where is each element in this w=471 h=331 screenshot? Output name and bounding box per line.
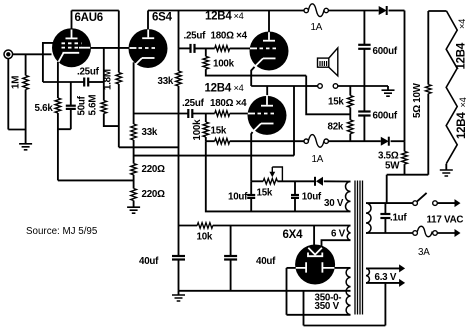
svg-text:1M: 1M xyxy=(11,76,22,89)
output terminal 1 xyxy=(318,84,323,89)
wire 6X4 heater top xyxy=(313,226,315,246)
bus B top xyxy=(148,10,304,12)
wire feedback node across xyxy=(119,146,178,148)
wire AC neutral arrow xyxy=(437,232,455,234)
svg-text:220Ω: 220Ω xyxy=(142,164,166,175)
tube V4 12B4 envelope xyxy=(248,96,287,135)
ground input xyxy=(19,144,32,150)
wire 12B4a plate to bus xyxy=(268,11,270,33)
wire 82k bottom xyxy=(349,134,351,142)
resistor 33k cathode xyxy=(131,124,137,140)
resistor 3.5 ohm 5W xyxy=(404,141,406,151)
wire bottom rail mid xyxy=(206,141,351,211)
wire 220 bottom xyxy=(133,201,135,208)
wire AC neutral xyxy=(366,232,413,234)
wire 6V return xyxy=(322,240,351,246)
wire heater top xyxy=(428,10,446,12)
svg-text:15k: 15k xyxy=(211,126,227,137)
wire coupling row xyxy=(43,81,84,83)
wire cap to 5.6M xyxy=(88,81,104,83)
6AU6 screen lead xyxy=(79,47,90,49)
svg-text:12B4: 12B4 xyxy=(205,11,232,23)
svg-text:10uf: 10uf xyxy=(228,191,248,202)
svg-text:82k: 82k xyxy=(328,122,344,133)
wire 100k bottom L xyxy=(206,69,306,76)
potentiometer 15k xyxy=(263,179,277,185)
capacitor .25uf upper xyxy=(189,44,191,53)
svg-text:180Ω ×4: 180Ω ×4 xyxy=(211,31,248,42)
capacitor 600uf upper xyxy=(363,11,365,45)
capacitor .1uf line xyxy=(384,203,386,214)
svg-text:40uf: 40uf xyxy=(256,256,276,267)
wire 6X4 left plate xyxy=(287,267,296,269)
6S4 cathode xyxy=(142,57,155,59)
svg-text:220Ω: 220Ω xyxy=(142,189,166,200)
winding primary xyxy=(366,203,371,233)
wire cathode bus down xyxy=(57,129,59,180)
svg-text:×4: ×4 xyxy=(234,83,244,93)
svg-text:100k: 100k xyxy=(192,119,203,141)
ground 220 divider xyxy=(127,207,140,213)
wire 12B4b cathode down xyxy=(251,132,252,181)
6S4 grid xyxy=(130,47,137,49)
wire tap to bias row xyxy=(134,155,294,157)
svg-text:.25uf: .25uf xyxy=(184,31,207,42)
wire 180 to 12B4 grid xyxy=(230,47,250,49)
svg-text:×4: ×4 xyxy=(234,11,244,21)
diode D3 xyxy=(314,177,316,186)
input jack J1 xyxy=(4,50,13,59)
resistor R2 5.6k cathode xyxy=(57,62,59,98)
svg-text:117 VAC: 117 VAC xyxy=(427,215,464,226)
wire fuse to diode xyxy=(328,10,378,12)
wire jack sleeve down xyxy=(7,59,9,130)
wire 12B4b plate drop xyxy=(266,86,268,96)
wire diode3 to winding xyxy=(324,180,351,182)
wire 33k to divider xyxy=(133,140,135,164)
wire 6AU6 plate to B+ bus A xyxy=(71,11,73,29)
wire centertap drop xyxy=(303,291,305,326)
ground output xyxy=(387,86,389,90)
wire 5.6M bottom xyxy=(104,114,119,127)
svg-text:1.8M: 1.8M xyxy=(103,69,114,90)
svg-text:15k: 15k xyxy=(328,97,344,108)
resistor 15k mid xyxy=(215,138,230,144)
wire diode to corner xyxy=(389,10,405,12)
6AU6 grids xyxy=(62,42,82,44)
resistor 12B4 heaters xyxy=(446,11,457,164)
svg-text:5W: 5W xyxy=(385,161,400,172)
fuse F2 1A lower xyxy=(304,139,308,143)
svg-text:600uf: 600uf xyxy=(373,111,398,122)
svg-text:1A: 1A xyxy=(311,22,323,33)
wire 15k to fuse xyxy=(230,140,304,142)
wire 180 to 12B4b grid xyxy=(230,113,248,115)
svg-text:12B4: 12B4 xyxy=(456,42,468,69)
svg-text:6 V: 6 V xyxy=(331,229,346,240)
wire jack ground run xyxy=(8,129,25,131)
wire 6AU6 plate to 6S4 grid xyxy=(90,47,129,49)
fuse F3 3A xyxy=(413,231,418,236)
svg-text:Source: MJ 5/95: Source: MJ 5/95 xyxy=(26,226,98,237)
wire up to 6.3V xyxy=(384,283,386,326)
winding 6V xyxy=(347,226,350,241)
wire 6.3V bottom arrow xyxy=(366,282,400,284)
resistor 15k feedback xyxy=(349,86,351,96)
svg-text:50uf: 50uf xyxy=(76,95,87,115)
12B4b plate xyxy=(266,95,268,105)
wire 6S4 cathode down xyxy=(133,62,135,124)
wire 1M bottom to ground xyxy=(25,130,27,144)
svg-text:33k: 33k xyxy=(142,127,158,138)
svg-text:6AU6: 6AU6 xyxy=(75,12,103,24)
wire 6.3V top arrow xyxy=(366,267,400,269)
wire cathode to pot xyxy=(251,180,263,182)
resistor 220 ohm lower xyxy=(133,175,135,189)
tube V2 6S4 envelope xyxy=(129,29,168,68)
wire HV bottom xyxy=(287,314,351,316)
resistor R1 1M xyxy=(25,54,27,75)
svg-text:600uf: 600uf xyxy=(373,46,398,57)
wire cap to 180ohm lower xyxy=(192,113,214,115)
resistor 220 ohm upper xyxy=(131,164,137,175)
resistor 5 ohm 10W xyxy=(427,94,429,175)
tube V5 6X4 envelope xyxy=(295,245,335,285)
tube V1 6AU6 envelope xyxy=(52,28,91,67)
wire bias tap up xyxy=(293,86,295,156)
wire feedback tap xyxy=(306,86,350,114)
svg-text:6.3 V: 6.3 V xyxy=(375,272,397,283)
resistor 82k xyxy=(348,120,354,134)
wire AC hot arrow xyxy=(437,202,455,204)
diode D2 xyxy=(381,137,389,146)
capacitor 10uf right xyxy=(294,181,296,194)
svg-text:10uf: 10uf xyxy=(302,191,322,202)
resistor 5.6M xyxy=(101,101,107,114)
svg-text:5Ω 10W: 5Ω 10W xyxy=(412,82,423,118)
svg-text:.25uf: .25uf xyxy=(77,67,100,78)
resistor 180 ohm lower xyxy=(215,111,230,117)
switch S1 xyxy=(413,201,418,206)
resistor 100k upper xyxy=(205,48,207,56)
wire right rail down xyxy=(404,11,406,142)
wire to output terminal xyxy=(306,85,317,87)
node plate junction down xyxy=(103,48,105,82)
capacitor 10uf left xyxy=(250,181,252,194)
bus A top xyxy=(72,10,119,12)
svg-text:5.6k: 5.6k xyxy=(35,103,54,114)
svg-text:6S4: 6S4 xyxy=(152,12,173,24)
wire filter rail xyxy=(179,290,351,292)
svg-text:3A: 3A xyxy=(418,247,430,258)
capacitor .25uf lower xyxy=(187,109,189,118)
6X4 cathode bars xyxy=(306,262,322,272)
wire cap to 180ohm xyxy=(195,47,215,49)
svg-text:6X4: 6X4 xyxy=(283,229,304,241)
12B4b grid xyxy=(248,113,255,115)
transformer core xyxy=(355,181,363,315)
wire cathode output row xyxy=(251,85,306,87)
wire 15k to 82k xyxy=(349,107,351,120)
12B4a cathode xyxy=(263,57,276,59)
resistor 180 ohm upper xyxy=(215,46,230,52)
wire 6S4 plate to bus B xyxy=(147,11,149,30)
ground filter xyxy=(178,291,180,295)
capacitor C1 .25uf xyxy=(83,78,85,87)
winding 350-0-350 xyxy=(346,268,350,315)
capacitor 600uf lower xyxy=(363,86,365,111)
wire pot right xyxy=(277,180,315,182)
6AU6 plate xyxy=(71,30,73,38)
capacitor 40uf left xyxy=(172,255,185,257)
resistor 1.8M xyxy=(118,11,120,73)
svg-text:12B4: 12B4 xyxy=(205,83,232,95)
capacitor 40uf right xyxy=(230,226,232,256)
svg-text:.25uf: .25uf xyxy=(182,98,205,109)
wire bottom return xyxy=(304,325,386,327)
6X4 plates chevron xyxy=(308,248,322,255)
wire heater bottom xyxy=(445,164,447,170)
fuse F1 1A top xyxy=(304,8,308,12)
svg-text:12B4: 12B4 xyxy=(456,112,468,139)
wire 3.5ohm bottom row xyxy=(404,164,406,175)
wire output to ground net xyxy=(338,85,388,87)
wire grid row lower xyxy=(134,113,188,115)
12B4a plate xyxy=(268,30,270,40)
svg-text:40uf: 40uf xyxy=(139,256,159,267)
svg-text:100k: 100k xyxy=(213,59,235,70)
vertical B+ dropper rail xyxy=(178,11,180,49)
6S4 plate xyxy=(147,28,149,38)
wire grid row upper xyxy=(179,47,191,49)
winding 30V xyxy=(346,182,351,212)
12B4b cathode xyxy=(261,123,274,125)
svg-text:×4: ×4 xyxy=(458,97,468,107)
svg-text:180Ω ×4: 180Ω ×4 xyxy=(210,98,247,109)
capacitor C2 50uf xyxy=(70,82,72,105)
wire down to 5.6M xyxy=(103,82,105,101)
svg-text:×4: ×4 xyxy=(457,19,467,29)
svg-text:5.6M: 5.6M xyxy=(87,95,98,116)
wire 1.8M bottom to node xyxy=(118,84,120,147)
output terminal 2 xyxy=(333,84,338,89)
resistor 10k xyxy=(179,225,198,227)
wire output loop right xyxy=(305,76,307,86)
wire rail continues xyxy=(178,48,180,71)
wire to AC line xyxy=(386,175,388,203)
speaker xyxy=(318,58,329,67)
6AU6 cathode xyxy=(63,52,80,54)
svg-text:1A: 1A xyxy=(312,154,324,165)
wire input jack to 6AU6 grid xyxy=(13,53,52,55)
wire 6AU6 grid top xyxy=(43,43,55,82)
svg-text:30 V: 30 V xyxy=(324,198,344,209)
diode D1 xyxy=(379,6,387,15)
wire AC hot xyxy=(366,202,413,204)
wire 12B4a cathode down xyxy=(251,67,254,86)
wire 5.6k bottom xyxy=(58,113,71,129)
wire diode2 to rail xyxy=(391,140,405,142)
ground heaters xyxy=(440,170,453,176)
svg-text:.1uf: .1uf xyxy=(390,213,407,224)
svg-text:33k: 33k xyxy=(158,76,174,87)
tube V3 12B4 envelope xyxy=(250,32,289,71)
svg-text:350 V: 350 V xyxy=(315,301,340,312)
winding 6.3V xyxy=(366,268,369,283)
wire 10k to 6X4 xyxy=(213,225,351,227)
resistor 100k lower xyxy=(205,114,207,123)
12B4a grid xyxy=(250,47,257,49)
wire 100k lower bottom xyxy=(205,137,207,141)
wire 6X4 right plate xyxy=(335,267,351,269)
wire cathode bus right xyxy=(58,179,134,181)
wire fuse2 to diode2 xyxy=(328,140,380,142)
wire rail through 33k xyxy=(176,71,182,86)
svg-text:10k: 10k xyxy=(197,232,213,243)
wire 15k row xyxy=(206,140,215,142)
svg-text:15k: 15k xyxy=(257,187,273,198)
